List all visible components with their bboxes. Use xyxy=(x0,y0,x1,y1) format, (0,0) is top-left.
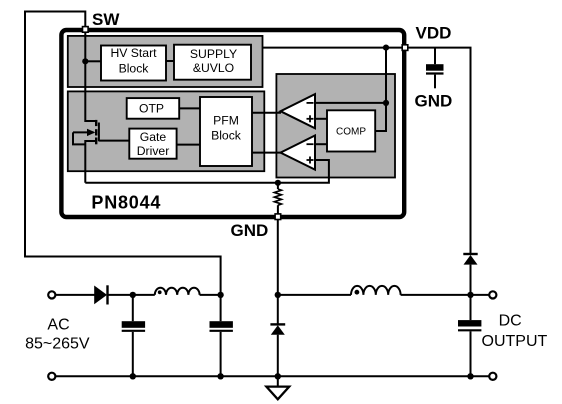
inductor L1 xyxy=(155,288,200,295)
svg-text:HV Start: HV Start xyxy=(110,46,157,60)
wire diode D1 to node xyxy=(108,294,155,296)
node junction C1 bottom xyxy=(130,373,136,379)
svg-text:OTP: OTP xyxy=(139,102,164,116)
wire GND pin down to freewheel node xyxy=(277,220,279,296)
gray block: comparator section xyxy=(276,74,395,178)
node junction C2 bottom xyxy=(217,373,223,379)
wire body tie to source xyxy=(73,132,85,144)
node junction B xyxy=(217,292,223,298)
svg-text:PFM: PFM xyxy=(213,114,239,128)
node junction ground xyxy=(275,373,281,379)
svg-text:GND: GND xyxy=(415,91,453,110)
svg-text:Driver: Driver xyxy=(137,144,170,158)
capacitor C1 xyxy=(132,295,134,321)
node junction freewheel top xyxy=(275,292,281,298)
MOSFET Q1 body arrow xyxy=(73,131,94,133)
svg-text:Gate: Gate xyxy=(140,130,167,144)
MOSFET Q1 channel dashes xyxy=(95,120,97,126)
wire OTP to PFM xyxy=(179,107,200,109)
wire op-amp U3 minus input to COMP xyxy=(315,143,327,145)
SUPPLY &UVLO box xyxy=(174,45,251,80)
wire MOSFET source down xyxy=(85,141,95,183)
node junction sense resistor tap xyxy=(275,180,281,186)
wire current sense / feedback line xyxy=(85,160,329,183)
svg-text:SUPPLY: SUPPLY xyxy=(190,47,237,61)
op-amp U3 (lower comparator) xyxy=(281,136,316,170)
PFM Block box xyxy=(200,97,252,166)
gray block: HV start / supply section xyxy=(68,36,263,87)
OTP box xyxy=(127,98,180,119)
resistor R1 sense xyxy=(277,183,279,189)
wire bottom rail xyxy=(56,375,489,377)
wire PFM to op-amp U3 output xyxy=(252,152,281,154)
capacitor C4 output xyxy=(470,295,472,320)
wire AC top to diode D1 xyxy=(56,294,95,296)
Gate Driver box xyxy=(129,129,176,159)
svg-text:AC: AC xyxy=(47,317,69,334)
node junction C4 bottom xyxy=(467,373,473,379)
wire PFM to op-amp U2 output xyxy=(252,112,281,114)
node junction output top xyxy=(467,292,473,298)
svg-text:Block: Block xyxy=(119,61,150,75)
svg-text:DC: DC xyxy=(499,313,522,330)
svg-text:SW: SW xyxy=(92,10,120,29)
ground earth symbol xyxy=(277,376,279,386)
wire op-amp U2 minus input to VDD sense line xyxy=(315,102,386,104)
pin GND node square xyxy=(275,214,281,220)
svg-text:PN8044: PN8044 xyxy=(91,192,161,212)
wire VDD rail down to COMP xyxy=(375,48,386,131)
diode D3 freewheel xyxy=(277,295,279,325)
wire L1 to node B xyxy=(200,294,221,296)
terminal DC out bottom xyxy=(489,373,496,380)
terminal AC top xyxy=(48,291,55,298)
IC U1 PN8044 outline xyxy=(61,30,404,217)
inductor L2 xyxy=(351,286,401,295)
gray block: logic section xyxy=(68,91,264,171)
svg-text:VDD: VDD xyxy=(416,24,452,43)
svg-text:Block: Block xyxy=(211,129,242,143)
COMP box xyxy=(327,110,375,151)
terminal DC out top xyxy=(489,291,496,298)
diode D2 VDD charge xyxy=(463,253,477,255)
wire freewheel node to L2 xyxy=(278,294,351,296)
wire MOSFET gate to Gate Driver xyxy=(99,140,129,142)
MOSFET Q1 gate electrode xyxy=(98,123,100,142)
wire internal VDD rail xyxy=(263,47,403,49)
svg-text:COMP: COMP xyxy=(336,126,366,137)
svg-text:&UVLO: &UVLO xyxy=(193,61,234,75)
node junction C1 top xyxy=(130,292,136,298)
node junction op-amp minus tap xyxy=(383,100,389,106)
wire SW pin down to MOSFET drain xyxy=(85,32,95,121)
wire Gate Driver to PFM xyxy=(177,144,200,146)
diode D1 input rectifier xyxy=(94,286,107,305)
node junction on SW line to HV Start xyxy=(82,58,88,64)
svg-text:85~265V: 85~265V xyxy=(25,335,90,352)
wire L2 to output node xyxy=(401,294,471,296)
wire SW loop from SW pin to filter node xyxy=(25,12,221,294)
capacitor C3 VDD bypass stub xyxy=(434,48,436,65)
wire VDD pin to output diode branch xyxy=(408,48,470,253)
wire HV Start to SUPPLY xyxy=(166,60,174,62)
capacitor C2 xyxy=(220,295,222,321)
terminal AC bottom xyxy=(48,373,55,380)
op-amp U2 (upper comparator) xyxy=(281,94,316,128)
svg-text:GND: GND xyxy=(231,221,269,240)
capacitor C3 plates xyxy=(426,64,444,71)
pin VDD node square xyxy=(402,45,408,51)
wire op-amp U2 plus input to COMP xyxy=(315,118,327,120)
wire to HV Start Block xyxy=(85,60,101,62)
pin SW node square xyxy=(83,27,89,33)
wire to DC+ terminal xyxy=(471,294,490,296)
node junction VDD rail xyxy=(383,45,389,51)
svg-text:OUTPUT: OUTPUT xyxy=(482,333,548,350)
HV Start Block box xyxy=(101,46,166,81)
